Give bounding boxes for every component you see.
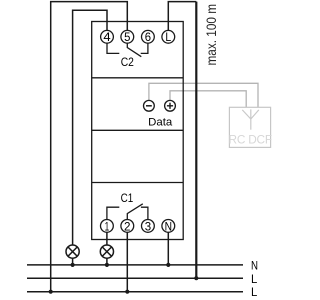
svg-text:3: 3 [145,219,151,233]
wire terminal N to N bus [166,232,170,267]
switch C2 contact from terminal 6 [141,43,148,53]
terminal 1 [101,219,114,233]
terminal plus [165,100,176,111]
wire terminal 1 to lamp E2 [106,232,108,245]
svg-text:C1: C1 [121,191,134,205]
switch C1 contact from terminal 3 [141,207,148,219]
svg-text:C2: C2 [121,55,134,69]
lamp E1 [66,245,79,267]
wire from terminal 5 to bottom L bus [49,2,128,294]
wire from terminal L to middle L bus [168,2,198,281]
switch C2 contact from terminal 4 [107,43,119,53]
svg-text:N: N [251,258,258,272]
L bus middle [27,277,243,279]
svg-text:Data: Data [148,117,173,129]
svg-text:max. 100 m: max. 100 m [204,4,219,66]
wire terminal 2 to bottom L bus [125,232,129,294]
terminal 2 [121,219,134,233]
antenna symbol [242,109,258,129]
RC DCF antenna box [229,107,270,147]
terminal minus [144,100,155,111]
section divider 2 [92,129,184,131]
terminal L [162,30,175,44]
terminal 3 [142,219,155,233]
svg-text:L: L [251,285,258,299]
gray wire plus to RC DCF antenna [170,91,246,108]
svg-text:N: N [165,219,172,233]
switch C1 blade from terminal 2 [127,204,143,220]
L bus bottom [27,291,243,293]
svg-text:2: 2 [124,219,131,233]
N bus [27,264,243,266]
lamp E2 [100,245,113,267]
switch C1 contact from terminal 1 [107,207,119,219]
device outline U1 [92,22,184,240]
svg-text:RC DCF: RC DCF [229,133,272,147]
terminal 5 [121,30,134,44]
terminal 4 [101,30,114,44]
svg-text:L: L [165,30,171,44]
svg-text:1: 1 [105,219,110,233]
svg-text:L: L [251,272,258,286]
svg-text:6: 6 [145,30,151,44]
section divider 1 [92,77,184,79]
svg-text:5: 5 [124,30,130,44]
section divider 3 [92,182,184,184]
gray wire minus to RC DCF antenna [149,83,258,107]
terminal 6 [142,30,155,44]
switch C2 blade from terminal 5 [127,43,141,56]
terminal N [162,219,175,233]
svg-text:4: 4 [103,30,110,44]
wire from terminal 4 to lamp E1 [73,10,107,245]
